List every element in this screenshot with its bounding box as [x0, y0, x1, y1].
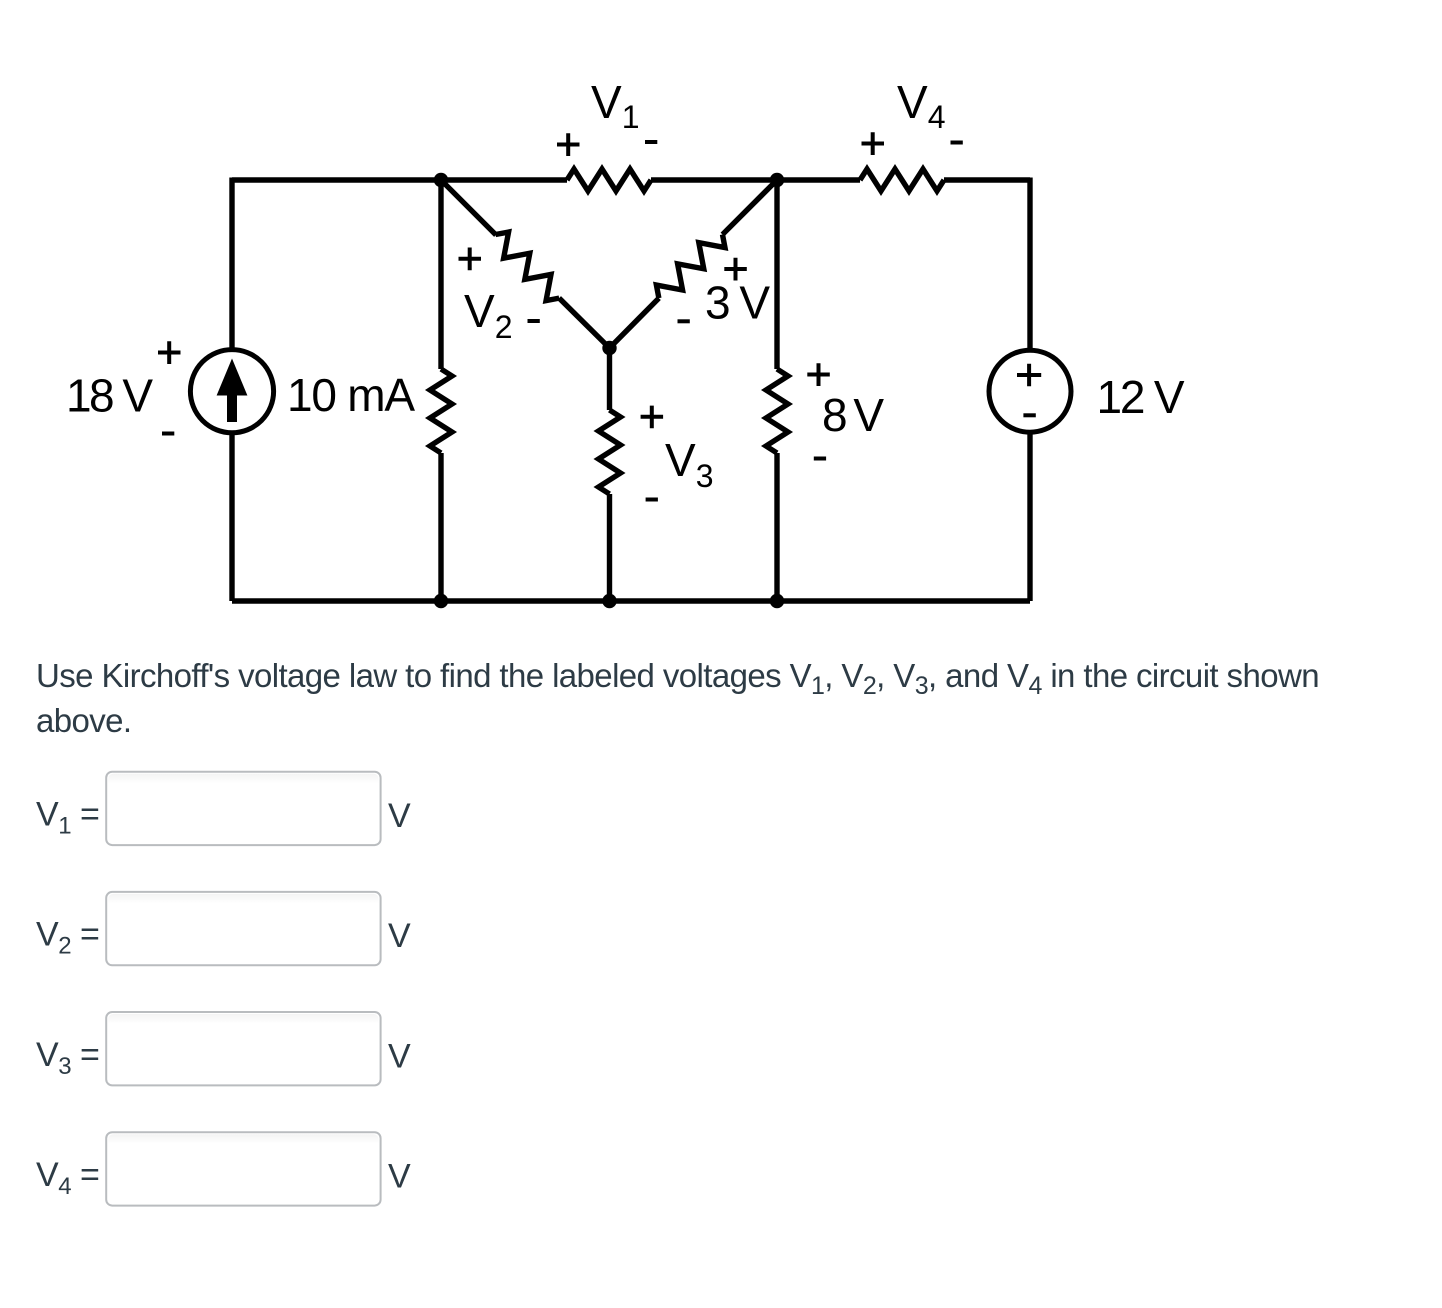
polarity - (inside 12 V source) — [1023, 413, 1035, 417]
wire right-top (top-right corner down to voltage source) — [1027, 178, 1032, 351]
wire branch 1 upper (node A down to unnamed resistor) — [438, 180, 443, 369]
voltage label V1 — [591, 76, 639, 135]
answer input box row 4 — [106, 1132, 380, 1205]
value label 8 V — [822, 389, 884, 441]
svg-text:V2: V2 — [464, 285, 512, 345]
resistor 8V (vertical, right middle) — [766, 369, 788, 453]
svg-text:V1 =: V1 = — [36, 796, 99, 840]
svg-text:8 V: 8 V — [822, 389, 884, 441]
svg-text:V1: V1 — [591, 76, 639, 135]
svg-text:V3 =: V3 = — [36, 1036, 99, 1080]
value label 12 V — [1097, 371, 1185, 423]
answer unit V (row 3) — [388, 1037, 411, 1075]
current source I1 circle — [190, 350, 273, 433]
wire branch 8V upper (node B down to resistor 8V) — [774, 180, 779, 369]
svg-text:V: V — [388, 1158, 411, 1196]
node B (top junction x=777) — [770, 173, 784, 187]
wire diagonal V2 lower (resistor V2 to center node C) — [559, 298, 609, 348]
voltage label V2 — [464, 285, 512, 345]
wire branch V3 upper (center node C down to resistor V3) — [607, 348, 612, 410]
svg-text:3 V: 3 V — [705, 277, 770, 329]
answer unit V (row 4) — [388, 1158, 411, 1196]
node E (bottom junction x=609.5) — [602, 594, 616, 608]
wire branch 8V lower — [774, 453, 779, 601]
polarity + (18 V) — [158, 341, 181, 364]
node F (bottom junction x=777) — [770, 594, 784, 608]
svg-text:V: V — [388, 797, 411, 835]
value label 18 V — [66, 370, 153, 422]
node A (top junction x=441) — [434, 173, 448, 187]
resistor V4 (horizontal, top right) — [860, 169, 944, 191]
polarity - (V2) — [528, 319, 540, 323]
polarity + (V2) — [459, 248, 482, 271]
question text line 1 — [36, 657, 1319, 700]
answer label V3 = — [36, 1036, 99, 1080]
polarity - (V4) — [951, 141, 963, 145]
wire left-top (top-left corner down to current source) — [229, 178, 234, 350]
wire branch 1 lower — [438, 453, 443, 601]
svg-text:V2 =: V2 = — [36, 916, 99, 960]
polarity - (V3) — [646, 498, 658, 502]
wire right-bottom (voltage source to bottom rail) — [1027, 433, 1032, 601]
voltage source V12 circle — [989, 350, 1071, 432]
resistor V1 (horizontal, top middle) — [567, 169, 651, 191]
node C (center junction) — [602, 341, 616, 355]
polarity + (inside 12 V source) — [1017, 364, 1041, 387]
current source I1 arrow — [217, 359, 248, 423]
wire top (node A to node B rail) — [232, 177, 1030, 182]
answer unit V (row 2) — [388, 917, 411, 955]
polarity + (3 V) — [724, 258, 747, 281]
wire diagonal 3V upper (node B to resistor 3V) — [723, 180, 778, 235]
answer label V4 = — [36, 1156, 99, 1200]
wire branch V3 lower — [607, 494, 612, 601]
polarity - (V1) — [645, 140, 657, 144]
voltage label V3 — [665, 434, 713, 494]
polarity - (3 V) — [678, 319, 690, 323]
polarity - (18 V) — [162, 432, 174, 436]
resistor V2 (diagonal 45deg) — [488, 227, 567, 306]
polarity + (V4) — [862, 132, 885, 155]
polarity - (8 V) — [814, 457, 826, 461]
answer input box row 3 — [106, 1012, 380, 1085]
wire left-bottom (current source to bottom rail) — [229, 433, 234, 601]
answer input box row 2 — [106, 892, 380, 965]
svg-text:Use Kirchoff's voltage law to: Use Kirchoff's voltage law to find the l… — [36, 657, 1319, 700]
svg-text:V: V — [388, 1037, 411, 1075]
answer input box row 1 — [106, 772, 380, 845]
value label 10 mA — [287, 369, 415, 421]
polarity + (8 V) — [807, 363, 830, 386]
svg-text:12 V: 12 V — [1097, 371, 1185, 423]
resistor 3V (diagonal 135deg) — [651, 227, 730, 306]
svg-text:V: V — [388, 917, 411, 955]
value label 3 V — [705, 277, 770, 329]
answer label V2 = — [36, 916, 99, 960]
polarity + (V1) — [557, 133, 580, 156]
svg-text:above.: above. — [36, 702, 131, 739]
svg-text:V3: V3 — [665, 434, 713, 494]
svg-text:10 mA: 10 mA — [287, 369, 415, 421]
question text line 2 — [36, 702, 131, 739]
polarity + (V3) — [641, 406, 664, 429]
resistor V3 (vertical, middle) — [599, 410, 621, 494]
svg-text:V4 =: V4 = — [36, 1156, 99, 1200]
wire diagonal 3V lower (resistor 3V to center node C) — [610, 298, 659, 348]
wire diagonal V2 upper (node A to resistor V2) — [441, 180, 496, 235]
voltage label V4 — [897, 76, 945, 135]
answer unit V (row 1) — [388, 797, 411, 835]
node D (bottom junction x=441) — [434, 594, 448, 608]
svg-text:18 V: 18 V — [66, 370, 153, 422]
resistor (left vertical, unlabeled, x=441) — [430, 369, 452, 453]
svg-text:V4: V4 — [897, 76, 945, 135]
wire bottom rail — [232, 598, 1030, 603]
answer label V1 = — [36, 796, 99, 840]
